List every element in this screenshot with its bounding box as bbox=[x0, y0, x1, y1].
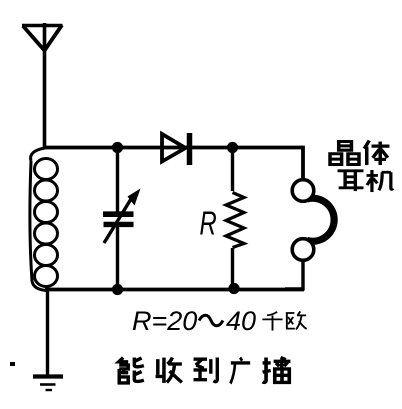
svg-text:40: 40 bbox=[226, 306, 256, 336]
resistor R bbox=[226, 193, 244, 248]
label 千 bbox=[262, 312, 282, 331]
capacitor C1 variable: plates bbox=[103, 211, 134, 217]
wire earphone lower bbox=[285, 261, 305, 291]
node junction bottom-left bbox=[112, 284, 123, 295]
ground bbox=[33, 377, 63, 391]
wire ground lead bbox=[46, 291, 49, 376]
wire top horizontal bbox=[44, 146, 302, 150]
antenna bbox=[22, 23, 63, 148]
svg-text:R=20: R=20 bbox=[132, 306, 197, 336]
wire resistor branch upper bbox=[231, 148, 234, 192]
earphone: top cup bbox=[292, 180, 314, 202]
label 机 bbox=[367, 170, 393, 192]
node junction diode-right bbox=[227, 142, 238, 153]
earphone: bottom cup bbox=[292, 239, 314, 261]
node junction bottom-mid bbox=[228, 283, 239, 294]
wire right branch down to earphone bbox=[301, 148, 303, 181]
wire bottom horizontal bbox=[45, 288, 304, 292]
diode D1 bbox=[162, 133, 190, 165]
label 耳 bbox=[338, 171, 364, 191]
label 晶 bbox=[330, 142, 359, 165]
stray dot bbox=[10, 362, 15, 366]
label 体 bbox=[364, 141, 389, 165]
wire resistor branch lower bbox=[231, 248, 234, 289]
capacitor arrow bbox=[104, 199, 131, 243]
coil L1 bbox=[30, 148, 58, 291]
earphone: headband arc bbox=[307, 198, 334, 241]
node junction left-cap bbox=[112, 142, 123, 153]
wire capacitor branch lower bbox=[116, 226, 119, 290]
wire capacitor branch upper bbox=[116, 148, 119, 214]
label 播 bbox=[263, 358, 291, 383]
label 广 bbox=[230, 358, 250, 384]
svg-text:R: R bbox=[200, 206, 217, 243]
label 收 bbox=[156, 358, 182, 383]
label 能 bbox=[119, 358, 144, 383]
label 到 bbox=[194, 358, 218, 382]
label 欧 bbox=[287, 311, 307, 329]
